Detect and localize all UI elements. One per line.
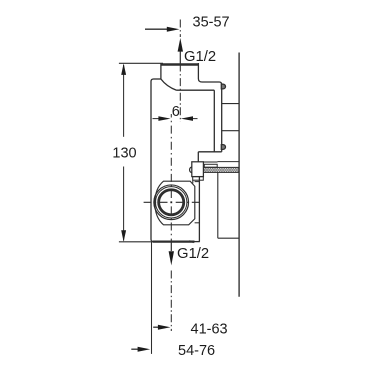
cartridge middle circle <box>156 187 187 218</box>
shoulder fillet curve <box>161 79 177 90</box>
body right edge lower <box>198 177 200 242</box>
svg-text:130: 130 <box>112 145 136 161</box>
dimension 35-57 leader arrow <box>145 27 180 32</box>
valve centerline vertical (dash-dot) <box>170 114 172 331</box>
top port centerline (dash-dot) <box>179 20 181 123</box>
svg-text:54-76: 54-76 <box>178 343 215 359</box>
dimension 6 arrows <box>153 116 198 121</box>
dimension 41-63 leader arrow <box>153 325 170 330</box>
plate bottom line <box>198 151 221 153</box>
cartridge housing <box>155 181 195 225</box>
cartridge outer circle <box>154 185 189 220</box>
dimension line 130 <box>121 63 126 241</box>
body left edge <box>151 79 154 242</box>
screw bottom on plate <box>221 145 225 150</box>
body top ledge y=79 <box>154 78 161 80</box>
nut line above rod <box>204 162 239 168</box>
svg-text:35-57: 35-57 <box>193 14 230 30</box>
G1/2 bottom flow arrow <box>169 242 174 265</box>
extension line top (y=63.4) <box>119 62 163 64</box>
center dot <box>170 201 172 203</box>
clamp block <box>192 162 204 177</box>
screw top on plate <box>221 84 225 89</box>
G1/2 top flow arrow <box>178 38 183 64</box>
svg-text:G1/2: G1/2 <box>177 246 209 262</box>
body shelf line y=90.8 <box>177 89 215 91</box>
rear bracket vertical and bottom <box>218 172 239 238</box>
wall line <box>238 53 240 297</box>
clamp side button <box>190 167 192 173</box>
threaded rod (hatched) <box>204 167 239 172</box>
body bottom edge (thick) <box>153 240 195 242</box>
svg-text:G1/2: G1/2 <box>184 49 216 65</box>
plate left edge <box>213 90 215 152</box>
port top edge <box>161 63 199 66</box>
clamp foot tick <box>192 180 194 183</box>
housing-to-body short lines <box>195 181 200 183</box>
plate right edge <box>221 84 223 152</box>
wall bracket box lines <box>222 104 239 131</box>
cartridge inner ring outer <box>158 189 185 216</box>
port left edge <box>160 63 162 79</box>
drop from plate bottom to clamp <box>197 152 199 162</box>
svg-text:6: 6 <box>172 104 180 120</box>
extension line left edge downward <box>151 242 153 354</box>
dimension 54-76 leader arrow <box>131 347 150 352</box>
circle horizontal centerline (dash-dot) <box>144 201 200 203</box>
flange plate <box>198 84 221 162</box>
cartridge inner ring inner <box>159 190 183 214</box>
port right edge with fillet into y82 ledge <box>198 63 221 85</box>
valve body outline <box>151 63 222 243</box>
clamp foot <box>193 177 204 181</box>
extension line bottom (y=241.8) <box>119 241 152 243</box>
svg-text:41-63: 41-63 <box>191 321 228 337</box>
